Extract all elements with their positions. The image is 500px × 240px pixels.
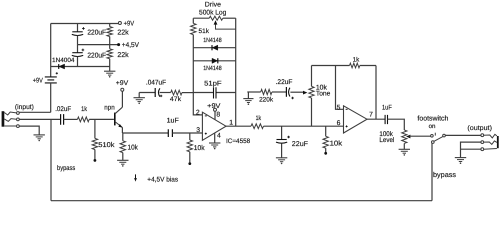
svg-text:+9V: +9V — [124, 20, 135, 27]
label pin 5 — [337, 104, 341, 111]
svg-text:Tone: Tone — [316, 91, 331, 98]
svg-text:npn: npn — [104, 104, 115, 111]
resistor 51k — [191, 23, 210, 35]
svg-text:1uF: 1uF — [382, 104, 392, 111]
svg-text:.02uF: .02uF — [55, 106, 71, 113]
resistor 10k pin6 bias — [323, 126, 343, 155]
svg-text:5: 5 — [337, 104, 341, 111]
ground level pot — [399, 143, 410, 155]
svg-text:on: on — [429, 123, 436, 130]
wire op-amp2 output — [367, 118, 385, 120]
svg-text:1N4148: 1N4148 — [203, 37, 222, 44]
resistor 10k emitter — [120, 133, 138, 160]
wire emitter down — [121, 128, 123, 134]
svg-text:220uF: 220uF — [87, 30, 106, 37]
potentiometer 100k Level — [379, 130, 407, 144]
capacitor 220uF upper — [72, 24, 106, 45]
ground 22uF — [276, 158, 287, 164]
label pin 2 — [196, 109, 200, 116]
label bypass right — [433, 171, 457, 179]
svg-text:22uF: 22uF — [292, 141, 308, 148]
resistor 1k tone top — [312, 56, 377, 68]
wire drive box left rail — [193, 18, 202, 115]
wire drive box right rail — [235, 18, 237, 126]
svg-text:1k: 1k — [81, 106, 87, 113]
resistor 220k — [259, 89, 274, 103]
svg-text:10k: 10k — [128, 144, 139, 152]
note +4,5V bias arrow — [134, 174, 179, 183]
svg-text:3: 3 — [196, 127, 200, 134]
wire +4.5V mid rail — [78, 44, 119, 46]
output jack sleeve bar — [497, 136, 499, 148]
wire emitter to 1uF — [122, 132, 168, 134]
label pin 8 — [216, 111, 220, 118]
capacitor 22uF — [276, 126, 308, 158]
wire 1uF to pin3 — [172, 132, 202, 134]
transistor Q1 npn — [104, 104, 122, 127]
wire +9V top rail — [51, 23, 119, 25]
resistor 1k mid — [251, 115, 263, 128]
wire battery plus vertical — [50, 24, 52, 77]
svg-text:1k: 1k — [353, 56, 360, 63]
svg-text:+4,5V bias: +4,5V bias — [147, 177, 178, 184]
svg-text:+4,5V: +4,5V — [122, 42, 139, 49]
wire bypass vertical right — [431, 143, 433, 200]
svg-text:500k Log: 500k Log — [199, 10, 227, 17]
wire ground to cap — [139, 92, 155, 94]
svg-text:51pF: 51pF — [204, 81, 222, 88]
footswitch contact on — [431, 133, 436, 137]
svg-text:7: 7 — [369, 111, 373, 118]
resistor 10k pin3 bias — [187, 133, 205, 165]
label (output) — [467, 125, 492, 132]
svg-text:1N4004: 1N4004 — [52, 57, 75, 64]
svg-text:+9V: +9V — [116, 80, 129, 87]
ground emitter 10k — [117, 160, 128, 166]
input jack tip contact — [4, 112, 19, 115]
wire 1k to pin6 — [264, 125, 344, 127]
wire 1k to base — [89, 118, 114, 120]
svg-text:Drive: Drive — [205, 2, 221, 9]
svg-text:IC=4558: IC=4558 — [226, 138, 251, 145]
svg-text:10k: 10k — [330, 139, 343, 147]
capacitor 1uF output — [382, 104, 392, 124]
svg-text:footswitch: footswitch — [417, 114, 448, 122]
wire footswitch to output jack — [445, 134, 481, 136]
ground output jack — [455, 158, 466, 164]
svg-text:Level: Level — [379, 137, 394, 144]
svg-text:22k: 22k — [117, 29, 129, 37]
wire collector up — [121, 91, 123, 107]
ground op-amp1 pin4 — [209, 133, 220, 149]
svg-text:.047uF: .047uF — [146, 79, 166, 86]
wire jack tip to battery — [19, 111, 50, 113]
wire 1uF to level pot — [388, 119, 405, 130]
svg-text:1uF: 1uF — [167, 118, 179, 125]
ground power section — [104, 67, 115, 78]
wire op-amp1 output — [226, 125, 251, 127]
capacitor 220uF lower — [72, 45, 106, 67]
svg-text:bypass: bypass — [433, 171, 457, 179]
capacitor 51pF — [193, 81, 235, 99]
svg-text:10k: 10k — [194, 144, 205, 152]
output jack sleeve contact — [481, 148, 497, 151]
label on — [429, 123, 436, 130]
wire ground rail — [51, 66, 110, 68]
op-amp U1A IC=4558 — [202, 112, 250, 145]
footswitch pole — [443, 134, 446, 137]
output jack ring contact — [481, 141, 497, 145]
svg-text:51k: 51k — [199, 28, 210, 35]
label (input) — [15, 104, 34, 111]
resistor 1k input — [77, 106, 89, 122]
label footswitch — [417, 114, 448, 122]
potentiometer Drive 500k Log — [193, 2, 235, 21]
svg-text:2: 2 — [196, 109, 200, 116]
svg-text:+9V: +9V — [207, 103, 221, 110]
wire 47k to node — [182, 92, 193, 94]
tone pot wiper arrow — [303, 91, 307, 95]
wire bypass bottom rail — [51, 200, 432, 202]
resistor 47k — [160, 90, 182, 103]
diode D3 1N4148 lower — [193, 58, 235, 72]
resistor 22k lower — [107, 45, 129, 67]
diode D2 1N4148 upper — [193, 37, 235, 50]
ground .047uF leg — [134, 93, 145, 105]
label pin 6 — [337, 120, 341, 127]
wire bypass drop — [50, 119, 52, 200]
svg-text:bypass: bypass — [57, 165, 76, 172]
wire tone right rail — [375, 66, 377, 120]
diode D1 1N4004 — [52, 57, 75, 69]
svg-text:(input): (input) — [15, 104, 34, 111]
label pin 7 — [369, 111, 373, 118]
level pot wiper arrow — [406, 135, 431, 139]
input jack sleeve bar — [2, 111, 5, 127]
svg-text:220uF: 220uF — [87, 52, 106, 59]
wire tone mid rail to pin5 — [336, 66, 344, 110]
svg-text:4: 4 — [217, 133, 221, 140]
input jack ring contact — [4, 118, 19, 121]
capacitor 1uF stage1 — [167, 118, 179, 138]
battery BT1 +9V — [33, 77, 57, 85]
svg-text:220k: 220k — [259, 97, 274, 104]
svg-text:(output): (output) — [467, 125, 492, 132]
ground input jack — [34, 135, 45, 141]
resistor 510k — [92, 119, 115, 161]
svg-text:1: 1 — [229, 119, 233, 126]
wire jack sleeve to ground — [19, 126, 39, 135]
node +4,5V — [117, 42, 139, 49]
wire cap to 1k — [64, 118, 78, 120]
wire jack ring signal — [19, 118, 60, 120]
drive pot wiper arrow — [214, 20, 236, 29]
capacitor .047uF — [146, 79, 166, 97]
svg-text:510k: 510k — [98, 141, 115, 149]
wire battery minus down — [50, 83, 52, 112]
potentiometer 10k Tone — [309, 66, 331, 127]
output jack tip contact — [481, 134, 497, 138]
label pin 3 — [196, 127, 200, 134]
input jack sleeve contact — [4, 125, 19, 128]
wire cap to tone wiper — [290, 91, 303, 93]
capacitor .02uF — [55, 106, 71, 125]
terminal +9V supply output — [118, 20, 134, 27]
op-amp U1B — [344, 106, 368, 133]
svg-text:+9V: +9V — [33, 77, 43, 84]
wire output ring/sleeve to ground — [461, 142, 481, 157]
svg-text:.22uF: .22uF — [276, 79, 293, 86]
svg-text:8: 8 — [216, 111, 220, 118]
battery plus mark — [56, 72, 58, 74]
label bypass left — [57, 165, 76, 172]
svg-text:1k: 1k — [256, 115, 262, 122]
svg-text:47k: 47k — [170, 96, 182, 103]
terminal +9V collector — [116, 80, 129, 91]
label pin 1 — [229, 119, 233, 126]
ground 220k leg — [243, 92, 260, 105]
label pin 4 — [217, 133, 221, 140]
svg-text:22k: 22k — [117, 51, 129, 59]
resistor 22k upper — [107, 24, 129, 45]
footswitch contact bypass — [432, 136, 444, 143]
capacitor .22uF — [272, 79, 294, 99]
svg-text:1N4148: 1N4148 — [203, 65, 222, 72]
terminal +9V op-amp1 — [207, 103, 221, 120]
svg-text:6: 6 — [337, 120, 341, 127]
